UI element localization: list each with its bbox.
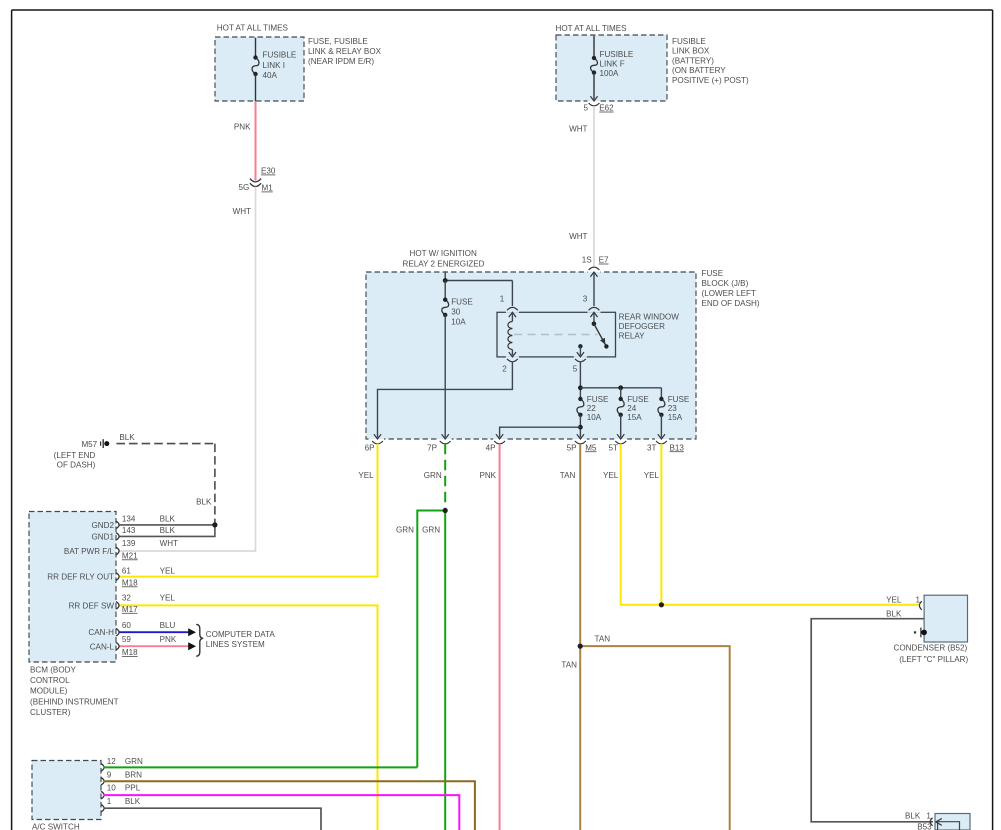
svg-text:23: 23: [668, 404, 678, 413]
svg-text:TAN: TAN: [595, 635, 611, 644]
svg-text:10A: 10A: [451, 318, 466, 327]
svg-text:1: 1: [500, 295, 505, 304]
svg-text:PNK: PNK: [479, 471, 496, 480]
svg-text:(BEHIND INSTRUMENT: (BEHIND INSTRUMENT: [30, 697, 119, 706]
svg-text:10A: 10A: [587, 413, 602, 422]
svg-text:1: 1: [916, 595, 921, 604]
svg-text:PNK: PNK: [160, 635, 177, 644]
svg-text:FUSIBLE: FUSIBLE: [672, 37, 706, 46]
svg-text:BRN: BRN: [125, 771, 142, 780]
svg-text:LINK I: LINK I: [263, 61, 286, 70]
svg-text:(LOWER LEFT: (LOWER LEFT: [702, 289, 756, 298]
svg-text:LINES SYSTEM: LINES SYSTEM: [206, 640, 265, 649]
svg-text:E30: E30: [261, 167, 276, 176]
svg-text:BLK: BLK: [196, 498, 212, 507]
svg-text:LINK F: LINK F: [600, 60, 625, 69]
svg-text:5P: 5P: [567, 444, 577, 453]
svg-text:CONTROL: CONTROL: [30, 676, 70, 685]
svg-text:PNK: PNK: [234, 123, 251, 132]
svg-text:FUSE: FUSE: [451, 297, 473, 306]
svg-text:MODULE): MODULE): [30, 687, 68, 696]
svg-text:HOT AT ALL TIMES: HOT AT ALL TIMES: [217, 24, 289, 33]
svg-text:WHT: WHT: [160, 539, 178, 548]
svg-text:M17: M17: [122, 605, 138, 614]
svg-text:LINK & RELAY BOX: LINK & RELAY BOX: [308, 47, 382, 56]
svg-text:61: 61: [122, 567, 132, 576]
svg-text:YEL: YEL: [160, 593, 176, 602]
svg-text:2: 2: [502, 365, 507, 374]
svg-text:3T: 3T: [647, 444, 657, 453]
svg-text:FUSE: FUSE: [668, 395, 690, 404]
svg-text:FUSIBLE: FUSIBLE: [263, 51, 297, 60]
svg-text:YEL: YEL: [603, 471, 619, 480]
svg-text:5G: 5G: [238, 183, 249, 192]
svg-text:YEL: YEL: [160, 567, 176, 576]
svg-text:LINK BOX: LINK BOX: [672, 47, 710, 56]
svg-text:M5: M5: [585, 443, 597, 452]
svg-text:CAN-L: CAN-L: [90, 642, 115, 651]
svg-text:24: 24: [627, 404, 637, 413]
svg-text:END OF DASH): END OF DASH): [702, 299, 760, 308]
svg-text:6P: 6P: [365, 444, 375, 453]
svg-text:59: 59: [122, 635, 132, 644]
svg-text:1: 1: [107, 797, 112, 806]
svg-text:RELAY: RELAY: [619, 332, 646, 341]
svg-text:WHT: WHT: [569, 232, 587, 241]
svg-text:E62: E62: [599, 104, 614, 113]
svg-text:1: 1: [926, 811, 931, 820]
svg-text:BLK: BLK: [886, 609, 902, 618]
svg-text:GRN: GRN: [424, 471, 442, 480]
svg-text:FUSE: FUSE: [702, 269, 724, 278]
svg-text:GND2: GND2: [92, 521, 115, 530]
svg-text:7P: 7P: [427, 444, 437, 453]
svg-text:BLOCK (J/B): BLOCK (J/B): [702, 279, 749, 288]
svg-text:30: 30: [451, 308, 461, 317]
svg-text:1S: 1S: [582, 256, 593, 265]
svg-text:GND1: GND1: [92, 532, 115, 541]
svg-text:FUSE: FUSE: [587, 395, 609, 404]
svg-text:5: 5: [573, 365, 578, 374]
svg-text:DEFOGGER: DEFOGGER: [619, 322, 665, 331]
svg-text:BAT PWR F/L: BAT PWR F/L: [64, 547, 115, 556]
svg-text:B13: B13: [670, 443, 685, 452]
svg-text:CAN-H: CAN-H: [88, 628, 114, 637]
svg-text:(BATTERY): (BATTERY): [672, 56, 714, 65]
svg-text:CLUSTER): CLUSTER): [30, 708, 71, 717]
svg-text:HOT W/ IGNITION: HOT W/ IGNITION: [410, 249, 477, 258]
svg-text:M21: M21: [122, 551, 138, 560]
svg-text:M1: M1: [262, 184, 274, 193]
svg-text:FUSE: FUSE: [627, 395, 649, 404]
svg-text:GRN: GRN: [396, 525, 414, 534]
svg-text:15A: 15A: [668, 413, 683, 422]
svg-text:COMPUTER DATA: COMPUTER DATA: [206, 630, 276, 639]
svg-text:100A: 100A: [600, 69, 620, 78]
svg-text:12: 12: [107, 757, 117, 766]
svg-text:15A: 15A: [627, 413, 642, 422]
svg-text:WHT: WHT: [569, 125, 587, 134]
svg-text:(LEFT "C" PILLAR): (LEFT "C" PILLAR): [899, 655, 968, 664]
svg-text:CONDENSER (B52): CONDENSER (B52): [894, 643, 968, 652]
svg-text:RR DEF RLY OUT: RR DEF RLY OUT: [47, 573, 114, 582]
svg-text:GRN: GRN: [422, 525, 440, 534]
svg-text:143: 143: [122, 526, 136, 535]
svg-text:(LEFT END: (LEFT END: [54, 451, 96, 460]
svg-text:5T: 5T: [609, 444, 619, 453]
svg-text:A/C SWITCH: A/C SWITCH: [32, 822, 80, 830]
svg-text:60: 60: [122, 621, 132, 630]
svg-text:40A: 40A: [263, 71, 278, 80]
svg-text:YEL: YEL: [358, 471, 374, 480]
svg-text:BLU: BLU: [160, 621, 176, 630]
svg-text:POSITIVE (+) POST): POSITIVE (+) POST): [672, 76, 749, 85]
svg-text:OF DASH): OF DASH): [57, 461, 96, 470]
svg-text:M18: M18: [122, 648, 138, 657]
svg-text:3: 3: [583, 295, 588, 304]
svg-text:22: 22: [587, 404, 597, 413]
svg-text:RR DEF SW: RR DEF SW: [69, 601, 115, 610]
svg-text:FUSE, FUSIBLE: FUSE, FUSIBLE: [308, 37, 368, 46]
svg-text:32: 32: [122, 593, 132, 602]
svg-text:139: 139: [122, 539, 136, 548]
svg-text:M18: M18: [122, 578, 138, 587]
svg-text:(NEAR IPDM E/R): (NEAR IPDM E/R): [308, 57, 374, 66]
svg-text:M57: M57: [81, 440, 97, 449]
svg-text:BCM (BODY: BCM (BODY: [30, 665, 76, 674]
svg-text:BLK: BLK: [160, 526, 176, 535]
svg-text:BLK: BLK: [905, 811, 921, 820]
svg-text:134: 134: [122, 514, 136, 523]
svg-text:5: 5: [583, 104, 588, 113]
svg-text:E7: E7: [599, 256, 609, 265]
svg-text:B53: B53: [917, 823, 932, 830]
svg-text:PPL: PPL: [125, 784, 141, 793]
svg-text:4P: 4P: [486, 444, 496, 453]
svg-text:BLK: BLK: [125, 797, 141, 806]
svg-text:(ON BATTERY: (ON BATTERY: [672, 66, 726, 75]
svg-text:9: 9: [107, 771, 112, 780]
svg-text:FUSIBLE: FUSIBLE: [600, 50, 634, 59]
svg-text:YEL: YEL: [886, 595, 902, 604]
svg-text:REAR WINDOW: REAR WINDOW: [619, 312, 680, 321]
svg-text:10: 10: [107, 784, 117, 793]
svg-text:GRN: GRN: [125, 757, 143, 766]
svg-text:TAN: TAN: [561, 661, 577, 670]
svg-text:WHT: WHT: [233, 207, 251, 216]
svg-text:BLK: BLK: [119, 433, 135, 442]
svg-text:RELAY 2 ENERGIZED: RELAY 2 ENERGIZED: [403, 259, 485, 268]
svg-text:YEL: YEL: [644, 471, 660, 480]
svg-text:HOT AT ALL TIMES: HOT AT ALL TIMES: [556, 24, 628, 33]
svg-text:TAN: TAN: [560, 471, 576, 480]
svg-text:BLK: BLK: [160, 514, 176, 523]
